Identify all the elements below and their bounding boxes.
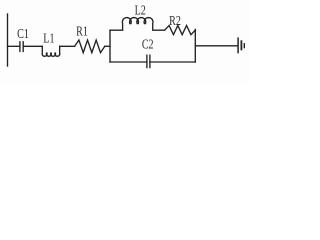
node A left vertical of parallel box <box>109 30 111 62</box>
wire input to C1 <box>8 45 20 47</box>
wire C1 to L1 <box>23 45 42 47</box>
ground symbol <box>237 38 239 52</box>
capacitor C2 <box>147 55 150 67</box>
svg-text:C1: C1 <box>17 25 29 41</box>
wire L1 to R1 <box>60 45 75 47</box>
node B right vertical of parallel box <box>194 29 196 62</box>
resistor R1 <box>75 40 105 53</box>
svg-text:C2: C2 <box>142 36 154 52</box>
bottom rail right segment from C2 <box>150 61 195 63</box>
svg-text:L2: L2 <box>135 2 146 18</box>
resistor R2 on top branch <box>165 26 196 35</box>
capacitor C1 <box>20 42 23 52</box>
output wire to ground <box>195 45 238 47</box>
svg-text:L1: L1 <box>43 30 54 46</box>
inductor L1 <box>42 46 60 56</box>
svg-text:R1: R1 <box>76 23 88 39</box>
input terminal line <box>7 14 9 66</box>
inductor L2 on top branch <box>110 18 165 31</box>
wire R1 to node A <box>105 45 110 47</box>
svg-text:R2: R2 <box>169 12 181 28</box>
bottom rail left segment to C2 <box>110 61 147 63</box>
